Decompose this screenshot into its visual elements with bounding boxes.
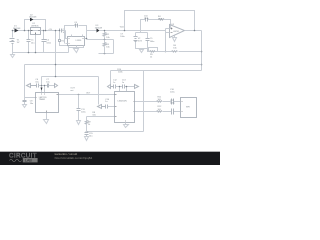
junction pin1 <box>41 85 43 87</box>
ground U2 <box>74 49 79 53</box>
junction loop right <box>45 30 47 32</box>
wire: output <box>185 31 202 71</box>
junction loop left <box>24 30 26 32</box>
svg-text:1N4148: 1N4148 <box>95 28 103 30</box>
resistor R6 <box>172 45 178 52</box>
wire U2 supply loop <box>69 46 84 49</box>
battery V2 <box>134 37 143 43</box>
svg-text:100n: 100n <box>120 36 124 38</box>
wire: main rail y30.5 <box>13 30 66 32</box>
svg-text:htto://circuitlab.com/c/rtpq84: htto://circuitlab.com/c/rtpq84 <box>55 156 93 160</box>
capacitor C5 <box>146 38 156 43</box>
diode D3 <box>95 25 103 33</box>
wire: long vertical A x55.3 <box>55 31 57 77</box>
regulator U1 <box>31 23 41 53</box>
cap C12 <box>113 80 123 89</box>
diode D2 <box>29 14 37 21</box>
bus1 y64.1 <box>25 65 202 98</box>
amp U5 <box>115 92 135 123</box>
ground below C8 <box>23 105 27 108</box>
bypass loop over R5 <box>149 48 158 52</box>
left pin wire <box>25 97 36 99</box>
divider tap wire <box>87 40 114 54</box>
555 out wire to U5 <box>59 94 115 96</box>
U5 ground <box>124 123 129 128</box>
op-amp U3 <box>166 24 185 38</box>
wire: feedback top y10 <box>125 11 195 31</box>
pins into U5 <box>120 87 127 92</box>
capacitor C11 <box>77 95 87 121</box>
svg-text:LM741: LM741 <box>173 31 180 33</box>
wire line A <box>135 101 181 103</box>
wire pins into 555 <box>42 86 45 93</box>
resistor R9 <box>85 117 91 126</box>
node label OUT <box>70 87 75 91</box>
lower rect wire y70.6 <box>87 71 202 132</box>
divider R2 <box>103 30 110 43</box>
svg-text:Vdet: Vdet <box>120 25 125 28</box>
svg-text:LAB: LAB <box>25 159 32 163</box>
junction 555 output net <box>78 94 80 96</box>
op-amp power ground <box>173 36 177 42</box>
555 timer U4 <box>36 93 59 113</box>
junction pin2 <box>44 85 46 87</box>
wire: U2 out to main <box>87 31 97 39</box>
wire: minus input down <box>165 33 167 52</box>
svg-text:SPK: SPK <box>186 107 191 109</box>
svg-text:1n: 1n <box>122 82 124 84</box>
cap C13 <box>122 80 135 89</box>
bias chain cap C10 <box>141 16 159 33</box>
svg-text:4.5V: 4.5V <box>138 40 143 42</box>
wire V2 loop <box>136 33 148 49</box>
capacitor C16 <box>170 89 175 105</box>
ground below C15 <box>85 137 89 141</box>
flag row into U5 <box>108 85 114 89</box>
capacitor C14 <box>105 99 114 109</box>
junction C1/main <box>28 30 30 32</box>
wire line B <box>135 111 181 113</box>
capacitor C7 <box>46 79 54 87</box>
battery V1 <box>10 31 21 53</box>
bias resistor R4 <box>158 16 171 29</box>
svg-text:1N4148: 1N4148 <box>29 17 37 19</box>
junction C2/main <box>43 30 45 32</box>
capacitor C6 <box>35 79 47 87</box>
resistor R11 <box>157 97 163 103</box>
ground below C11 <box>77 121 81 125</box>
wire y117 <box>87 116 115 118</box>
feedback lower wire y51.2 <box>148 49 202 52</box>
capacitor C8 <box>23 98 35 105</box>
V2 ground <box>140 49 144 53</box>
flag right <box>135 85 139 89</box>
net flag arrow <box>41 88 43 91</box>
svg-text:1n: 1n <box>113 82 115 84</box>
ground <box>11 53 15 58</box>
svg-text:net: net <box>70 89 73 92</box>
input flag right <box>55 84 58 88</box>
svg-text:1N4148: 1N4148 <box>13 28 21 30</box>
diode D1 <box>13 26 21 33</box>
junction C1 rail <box>28 52 30 54</box>
input flag left <box>27 84 37 88</box>
wire: feedback loop top-left <box>25 20 46 31</box>
capacitor C3 (series) <box>60 29 67 34</box>
bus2 y74.1 <box>42 77 99 105</box>
capacitor C2 <box>42 31 52 53</box>
wire: ground rail y52.6 <box>13 52 44 54</box>
capacitor C17 <box>170 100 175 115</box>
svg-text:TIMER: TIMER <box>39 99 46 101</box>
port flag U5 mid input <box>98 105 106 109</box>
capacitor C1 <box>27 31 36 53</box>
junction battery/main <box>12 30 14 32</box>
svg-text:LF356: LF356 <box>76 40 83 42</box>
svg-text:LM7805: LM7805 <box>31 26 39 28</box>
resistor R5 <box>150 51 156 59</box>
junction bottom wire <box>86 131 88 133</box>
speaker SP1 <box>181 98 197 118</box>
capacitor C4 feedback <box>65 22 87 44</box>
shunt network under C3 <box>44 30 69 53</box>
capacitor C15 <box>85 124 94 138</box>
svg-text:LM4250N: LM4250N <box>118 101 128 103</box>
junction U1 gnd rail <box>35 52 37 54</box>
wire: main to x124.4 <box>100 30 166 32</box>
op-amp U2 box <box>66 31 87 48</box>
555 ground <box>44 113 49 124</box>
resistor R12 <box>157 106 163 112</box>
divider R3 <box>103 40 110 54</box>
